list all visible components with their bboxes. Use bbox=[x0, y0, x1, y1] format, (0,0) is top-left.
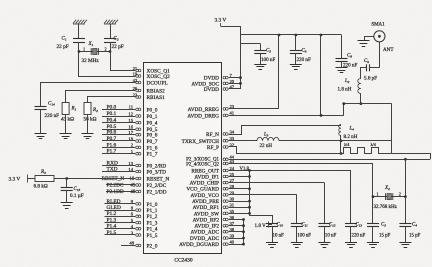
wire avdd row 213.4 to bus bbox=[229, 213, 250, 215]
node meander left bbox=[340, 152, 343, 155]
node X2 pin2 bbox=[404, 195, 407, 198]
crystal X2 32.768 kHz bbox=[373, 196, 405, 198]
wire balun top bbox=[344, 103, 392, 105]
wire X1 pin2 to XOSC_Q1 pin 21 bbox=[111, 52, 136, 71]
wire balun right leg bbox=[391, 104, 393, 154]
ground below C10 bbox=[266, 243, 278, 248]
ground below C8 bbox=[336, 68, 348, 73]
wire 3.3V to power bus bbox=[221, 27, 241, 90]
node L2-balun bbox=[360, 102, 363, 105]
wire RREG_OUT V1.8 to C13 bbox=[229, 170, 351, 172]
wire 3.3V to R3 bbox=[28, 178, 36, 180]
ground below C4 bbox=[399, 243, 411, 248]
node reset RC junction bbox=[65, 177, 68, 180]
inductor L2 1.8 nH bbox=[358, 79, 361, 94]
wire avdd row 225.7 stub bbox=[229, 225, 244, 227]
capacitor C3 15 pF bbox=[367, 224, 379, 227]
capacitor C13 220 nF bbox=[345, 224, 357, 227]
capacitor C15 0.1 uF bbox=[61, 188, 73, 191]
capacitor C1 22 pF bbox=[73, 39, 85, 43]
ground below C14 bbox=[35, 134, 47, 139]
capacitor C8 220 nF bbox=[336, 59, 348, 62]
IC U1 CC2430 body bbox=[144, 63, 222, 254]
node X2 pin1 bbox=[372, 195, 375, 198]
wire pin 47 to 3.3V bus bbox=[229, 88, 241, 90]
inductor L4 8.2 nH bbox=[340, 125, 342, 126]
capacitor C10 10 nF bbox=[266, 224, 278, 227]
wire rail feed to pin41 bbox=[320, 35, 322, 115]
ground below R1 bbox=[60, 134, 72, 139]
ground below R2 bbox=[82, 134, 94, 139]
power rail lower bbox=[241, 43, 261, 45]
node L4 TXRX junction bbox=[340, 139, 343, 142]
wire V1.8 to C13 top bbox=[350, 171, 352, 224]
ground at SMA1 bbox=[358, 41, 370, 47]
wire RBIAS2 to R1 bbox=[66, 91, 136, 103]
wire pin 20 to 3.3V bus bbox=[229, 83, 241, 85]
capacitor C12 10 nF bbox=[318, 224, 330, 227]
wire C9 to L2 bbox=[361, 68, 367, 79]
ground below C11 bbox=[291, 243, 303, 248]
capacitor C11 100 nF bbox=[291, 224, 303, 227]
wire L2 to balun top bbox=[360, 94, 362, 104]
wire pin41 riser to balun top bbox=[343, 104, 345, 116]
ground below C13 bbox=[345, 243, 357, 248]
wire SMA shield to ground bbox=[365, 37, 374, 42]
wire X1 pin1 to XOSC_Q2 pin 19 bbox=[79, 52, 136, 77]
wire rail to C5 bbox=[260, 44, 262, 51]
wire balun return bbox=[392, 154, 431, 160]
wire AVDD_CHIP pin27 to C12 bbox=[229, 182, 325, 184]
ground below C3 bbox=[367, 243, 379, 248]
wire avdd row 201.1 to bus bbox=[229, 201, 250, 203]
wire avdd row 238.0 stub bbox=[229, 238, 244, 240]
wire avdd row 176.5 to bus bbox=[229, 176, 250, 178]
power rail upper bbox=[241, 34, 342, 36]
wire X2 right to C4 bbox=[405, 197, 407, 224]
wire L4 junction down to meander bbox=[340, 141, 342, 154]
node rail-23 feed bbox=[278, 34, 281, 37]
wire avdd row 231.8 stub bbox=[229, 231, 244, 233]
resistor R1 43 kOhm bbox=[62, 103, 69, 115]
wire pin 7 to 3.3V bus bbox=[229, 77, 241, 79]
wire X2 left to C3 bbox=[372, 197, 374, 224]
resistor R2 56 kOhm bbox=[84, 103, 91, 115]
wire L3 to balun bbox=[279, 140, 392, 142]
capacitor C14 220 nF bbox=[35, 107, 47, 110]
crystal X1 32 MHz bbox=[79, 51, 110, 53]
node rail-C6 bbox=[294, 34, 297, 37]
wire R3 to RESET_N bbox=[54, 178, 135, 180]
wire avdd row 244.1 stub bbox=[229, 244, 244, 246]
node X2 right drop bbox=[404, 158, 407, 161]
resistor R3 6.8 kOhm bbox=[35, 176, 54, 182]
wire AVDD_VCO pin29 to C11 bbox=[229, 194, 297, 196]
ground below C6 bbox=[290, 65, 302, 70]
node X1 pin2 bbox=[109, 50, 112, 53]
node 3.3V rail split bbox=[239, 25, 241, 27]
node bus row 207.2 bbox=[248, 206, 251, 209]
capacitor C6 220 nF bbox=[290, 51, 302, 54]
wire RF_P jog down bbox=[229, 147, 341, 154]
node bus row 176.5 bbox=[248, 175, 251, 178]
wire pin43 to X2 left bbox=[229, 164, 373, 197]
node bus row 201.1 bbox=[248, 200, 251, 203]
microstrip meander quarter-wave bbox=[341, 148, 392, 154]
wire TXRX_SWITCH to L3 bbox=[229, 140, 257, 142]
wire L4 bottom to TXRX row bbox=[340, 136, 342, 141]
capacitor C9 5.6 pF bbox=[367, 64, 370, 71]
inductor L3 22 nH bbox=[257, 137, 279, 140]
wire RBIAS1 to R2 bbox=[88, 97, 136, 103]
node DVDD pin7 bbox=[239, 76, 242, 79]
capacitor C4 15 pF bbox=[399, 224, 411, 227]
node X1 pin1 bbox=[78, 50, 81, 53]
wire rail to C8 bbox=[341, 35, 343, 58]
wire SMA center to C9 bbox=[379, 42, 381, 68]
capacitor C5 100 nF bbox=[254, 51, 266, 54]
node V1.8 bus tap bbox=[248, 169, 251, 172]
wire junction to C15 bbox=[66, 179, 68, 188]
wire rail to C6 bbox=[295, 35, 297, 50]
ground below C5 bbox=[254, 65, 266, 70]
wire avdd row 188.8 to bus bbox=[229, 188, 250, 190]
wire DCOUPL to C14 bbox=[41, 83, 136, 107]
capacitor C2 22 pF bbox=[104, 39, 116, 43]
wire bus to C10 bbox=[250, 216, 273, 224]
ground below C12 bbox=[318, 243, 330, 248]
wire AVDD_DREG pin41 to balun bbox=[229, 115, 344, 117]
wire pin44 to X2 right bbox=[229, 159, 430, 161]
ground above C1 bbox=[73, 20, 87, 24]
secondary stub bus bbox=[243, 220, 245, 245]
wire AVDD_RREG pin23 to rail bbox=[229, 108, 279, 110]
wire avdd row 219.5 stub bbox=[229, 219, 244, 221]
ground below C15 bbox=[61, 203, 73, 209]
node balun top left bbox=[342, 102, 345, 105]
paper texture overlay bbox=[0, 0, 1, 1]
node rail-41 feed bbox=[320, 34, 323, 37]
wire avdd row 207.2 to bus bbox=[229, 207, 250, 209]
wire RF_N jog bbox=[229, 126, 341, 135]
ground above C2 bbox=[104, 20, 118, 24]
1.8V vertical bus bbox=[249, 171, 251, 216]
node bus row 188.8 bbox=[248, 187, 251, 190]
node pin41 rail junction bbox=[320, 114, 323, 117]
node DVDD pin20 bbox=[239, 82, 242, 85]
node bus row 213.4 bbox=[248, 212, 251, 215]
